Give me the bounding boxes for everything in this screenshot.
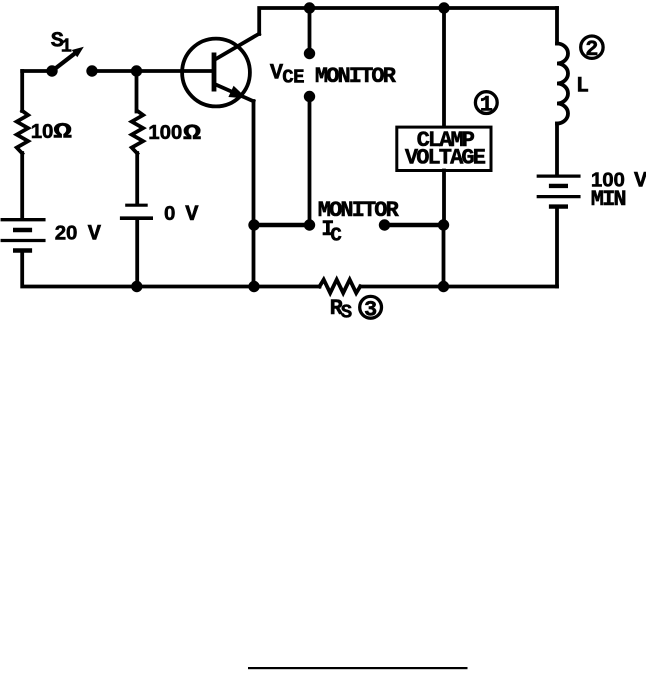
wire: clamp branch down to bottom rail (442, 225, 446, 287)
svg-text:V: V (634, 169, 646, 194)
svg-text:2: 2 (585, 37, 598, 62)
label 100-ohm value (148, 121, 201, 146)
node: Vce monitor upper test point (304, 48, 315, 59)
wire: from lower Vce test point down to monitor Ic row (308, 97, 312, 226)
node: emitter line joins monitor Ic row (248, 219, 259, 230)
label Rs (330, 296, 352, 324)
resistor R 10-ohm (17, 111, 28, 154)
svg-text:C: C (330, 224, 341, 246)
svg-text:V: V (185, 202, 199, 227)
wire: inductor to 100V battery (555, 124, 559, 175)
svg-text:S: S (341, 302, 352, 324)
resistor Rs (bottom rail sense resistor) (320, 280, 361, 293)
node: capacitor branch joins bottom rail (131, 281, 142, 292)
node: junction of switch wire and 100-ohm branch (131, 65, 142, 76)
wire: 20V battery to bottom rail (22, 252, 319, 287)
wire: left vertical from corner down to 10-ohm resistor (20, 71, 24, 111)
wire: collector up to top rail, top rail across to right branch (259, 8, 557, 34)
callout circled 3 (360, 296, 382, 322)
svg-text:L: L (576, 73, 589, 98)
label 10-ohm value (31, 120, 72, 145)
label 100 V MIN (591, 169, 646, 213)
wire: monitor Ic row left segment (254, 223, 310, 228)
node: Vce monitor lower test point (304, 91, 315, 102)
svg-text:MIN: MIN (591, 187, 626, 212)
wire: 10-ohm resistor to 20V battery (20, 153, 24, 218)
inductor L (557, 44, 568, 124)
resistor R 100-ohm (132, 111, 143, 154)
node: clamp branch joins bottom rail (438, 281, 449, 292)
svg-text:CE: CE (282, 67, 304, 89)
callout circled 2 (581, 36, 603, 62)
wire: emitter vertical down to monitor Ic row (252, 101, 256, 225)
node: top rail junction for Vce monitor stub (304, 2, 315, 13)
wire: capacitor to bottom rail (135, 220, 139, 286)
wire: emitter branch from monitor Ic row down to bottom rail (252, 225, 256, 287)
wire: 100-ohm branch vertical from junction down to resistor (135, 71, 139, 112)
node: clamp branch joins monitor Ic row (438, 219, 449, 230)
wire: 100-ohm resistor to capacitor (135, 153, 139, 204)
wire: 100V battery down to bottom rail right corner (555, 208, 559, 286)
label L (576, 73, 589, 98)
battery BT2 100V MIN (538, 176, 579, 207)
svg-text:100: 100 (148, 121, 182, 144)
svg-text:1: 1 (480, 93, 493, 118)
svg-text:Ω: Ω (183, 121, 201, 146)
svg-text:Ω: Ω (53, 120, 72, 144)
svg-text:MONITOR: MONITOR (315, 64, 397, 89)
label 20 V value (55, 221, 102, 246)
label 0 V value (164, 202, 199, 227)
label MONITOR Ic (318, 198, 400, 247)
svg-text:3: 3 (364, 297, 377, 322)
node: monitor Ic left test point (304, 219, 315, 230)
wire: right branch from top rail down to inductor (555, 8, 559, 44)
svg-text:20: 20 (55, 221, 78, 244)
capacitor C 0V (122, 205, 152, 218)
switch S1 (46, 47, 97, 77)
node: monitor Ic right test point (379, 219, 390, 230)
svg-text:V: V (88, 221, 102, 246)
svg-text:0: 0 (164, 202, 175, 225)
callout circled 1 (475, 92, 497, 118)
wire: clamp voltage box down to monitor Ic row (442, 171, 446, 226)
wire: switch output to transistor base (through 100-ohm junction) (92, 69, 212, 73)
wire: top-left horizontal from left corner to switch S1 (22, 69, 52, 73)
block: CLAMP VOLTAGE box U1 (397, 127, 491, 171)
wire: bottom rail right of Rs (361, 285, 558, 289)
wire: monitor Ic row right segment (385, 223, 444, 228)
svg-text:10: 10 (31, 120, 54, 143)
node: top rail junction for clamp branch (438, 2, 449, 13)
battery BT1 20V (2, 220, 44, 251)
label Vce MONITOR (270, 61, 397, 89)
wire: Vce monitor stub from top rail (308, 8, 312, 54)
divider line at page bottom (248, 667, 468, 669)
transistor Q1 (NPN) (182, 34, 259, 107)
wire: clamp branch from top rail down to clamp voltage box (442, 8, 446, 126)
svg-text:VOLTAGE: VOLTAGE (405, 146, 486, 171)
svg-text:1: 1 (61, 35, 72, 57)
label S1 (51, 28, 72, 57)
node: emitter branch joins bottom rail (248, 281, 259, 292)
